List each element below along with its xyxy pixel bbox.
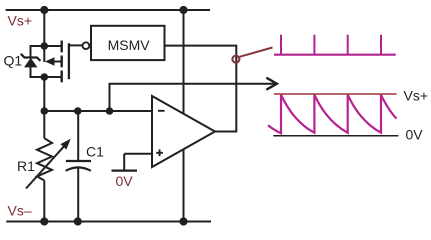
op-amp U1 plus sign [156,152,163,154]
wire Q1 source to R1/C1 node [43,77,45,111]
svg-text:MSMV: MSMV [108,37,151,53]
wire R1 top lead [43,111,45,138]
pulse waveform baseline [274,54,396,56]
svg-text:0V: 0V [116,173,134,189]
resistor R1 wiper arrow [26,146,64,188]
pulse spike 4 [380,35,382,55]
svg-text:0V: 0V [406,127,424,143]
node C1 top [74,107,82,115]
node Q1 source [41,73,49,81]
pulse spike 3 [347,35,349,55]
svg-text:R1: R1 [17,158,35,174]
resistor R1 zigzag (variable) [37,138,52,180]
transistor Q1 channel segment middle [61,56,63,68]
zener diode D1 (Q1 protection) cathode bar [21,54,41,61]
sawtooth waveform trace [268,95,397,134]
pulse spike 2 [313,35,315,55]
switch lever to pulse trace [240,48,273,57]
transistor Q1 channel segment bottom [61,71,63,83]
transistor Q1 body arrow [52,61,61,63]
wire bottom rail Vs- [6,221,211,223]
node top rail / op-amp V+ branch [179,6,187,14]
transistor Q1 channel segment top [61,41,63,53]
pulse spike 1 [280,35,282,55]
ground reference 0V symbol [123,154,125,171]
node bottom rail op-amp V- [179,217,187,225]
wire op-amp output to corner [165,46,237,132]
sawtooth Vs+ reference line [274,93,397,95]
op-amp U1 minus sign [158,110,165,112]
svg-text:C1: C1 [86,144,104,160]
inverter bubble at MSMV input [83,42,90,49]
svg-text:Vs+: Vs+ [8,13,33,29]
sawtooth 0V baseline [273,135,398,137]
svg-text:Vs+: Vs+ [404,87,429,103]
node bottom rail C1 [74,217,82,225]
capacitor C1 top plate [66,160,91,162]
wire top rail Vs+ [6,9,210,11]
wire op-amp V+ supply [183,10,185,114]
zener diode D1 anode triangle [25,59,37,67]
wire zener branch bottom [31,67,45,77]
node feedback tap [106,107,114,115]
wire timing node horizontal (R1/C1 top to op-amp inverting input) [44,110,152,112]
arrowhead sawtooth output [267,78,277,89]
wire C1 top lead [77,111,79,161]
node R1 top [41,107,49,115]
wire zener branch top [31,46,45,57]
svg-text:Vs–: Vs– [8,203,32,219]
wire Q1 drain from top rail [43,10,45,62]
block MSMV (monostable multivibrator) box [91,26,165,60]
wire C1 bottom lead [77,167,79,221]
wire op-amp V- supply [183,149,185,222]
wire Q1 gate to MSMV bubble [69,44,83,46]
capacitor C1 curved bottom plate [66,167,91,170]
transistor Q1 MOSFET drain stub [44,45,60,47]
transistor Q1 gate plate [68,43,70,79]
node top rail / Q1 branch [40,6,48,14]
wire op-amp noninverting input [124,153,152,155]
transistor Q1 MOSFET source stub [44,76,60,78]
wire feedback riser [110,84,276,111]
svg-text:Q1: Q1 [4,53,23,69]
switch pickoff circle (pulse output probe) [232,56,239,63]
node Q1 drain [41,42,49,50]
op-amp U1 triangle [152,96,215,167]
node bottom rail R1 [40,217,48,225]
wire R1 bottom lead [43,181,45,222]
